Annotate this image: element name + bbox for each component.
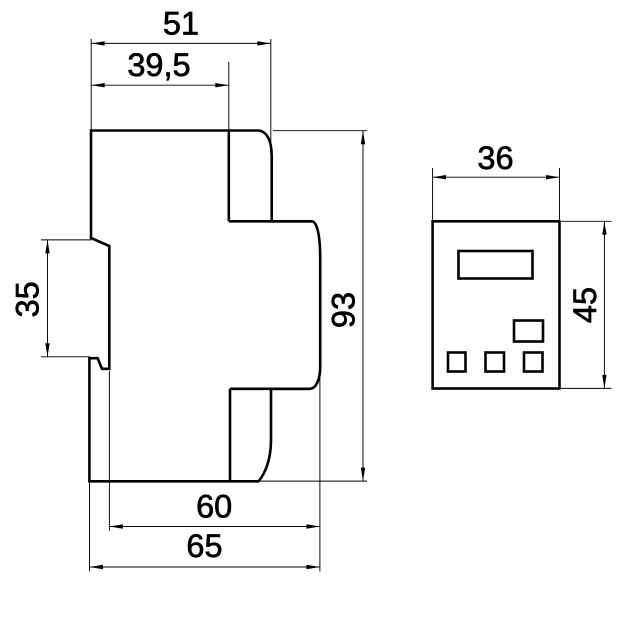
arrow 35 top — [45, 240, 49, 254]
arrow 39.5 right — [215, 83, 229, 87]
arrow 45 top — [602, 221, 606, 235]
upper bulge top edge — [229, 220, 312, 223]
extension line 35 top — [41, 239, 92, 241]
dimension line 65 — [90, 566, 320, 568]
dimension line 35 — [47, 240, 49, 357]
extension line 39.5 right — [228, 62, 230, 130]
extension line 36 left — [432, 168, 434, 221]
arrow 39.5 left — [91, 83, 105, 87]
front view square key 1 — [448, 353, 466, 372]
extension line 93 top — [273, 130, 367, 132]
dimension line 60 — [109, 526, 320, 528]
arrow 93 top — [361, 131, 365, 145]
extension line 51 left — [90, 39, 92, 130]
extension line 36 right — [559, 168, 561, 221]
upper housing step line — [228, 131, 231, 222]
dimension line 51 — [91, 42, 271, 44]
extension line 60/65 right — [319, 374, 321, 572]
svg-text:36: 36 — [477, 140, 513, 176]
dimension line 36 — [433, 176, 560, 178]
extension line 35 bottom — [41, 356, 90, 358]
arrow 35 bottom — [45, 343, 49, 357]
arrow 51 left — [91, 41, 105, 45]
lower bulge bottom edge — [230, 387, 310, 390]
extension line 65 left — [89, 481, 91, 571]
dimension line 93 — [362, 131, 364, 481]
front view body rectangle — [433, 221, 560, 388]
dimension line 45 — [603, 221, 605, 388]
front view square key 3 — [524, 353, 543, 372]
extension line 93 bottom — [258, 480, 367, 482]
svg-text:60: 60 — [196, 489, 232, 525]
svg-text:35: 35 — [10, 281, 46, 317]
svg-text:65: 65 — [186, 528, 222, 564]
arrow 36 left — [433, 175, 447, 179]
svg-text:45: 45 — [567, 287, 603, 323]
arrow 65 left — [90, 565, 104, 569]
arrow 60 left — [109, 524, 123, 528]
side view outline — [89, 131, 320, 482]
extension line 51 right — [270, 39, 272, 154]
svg-text:39,5: 39,5 — [127, 47, 190, 83]
arrow 36 right — [546, 175, 560, 179]
arrow 60 right — [306, 524, 320, 528]
extension line 45 top — [560, 220, 612, 222]
arrow 93 bottom — [361, 468, 365, 482]
extension line 45 bottom — [560, 387, 612, 389]
arrow 45 bottom — [602, 375, 606, 389]
front view square key 2 — [486, 353, 505, 372]
svg-text:51: 51 — [163, 5, 199, 41]
front view button — [514, 321, 543, 342]
lower housing step line — [229, 389, 232, 482]
svg-text:93: 93 — [326, 292, 362, 328]
dimension line 39.5 — [91, 84, 229, 86]
arrow 51 right — [257, 41, 271, 45]
front view display window — [459, 251, 533, 279]
arrow 65 right — [306, 565, 320, 569]
extension line 60 left — [108, 371, 110, 531]
